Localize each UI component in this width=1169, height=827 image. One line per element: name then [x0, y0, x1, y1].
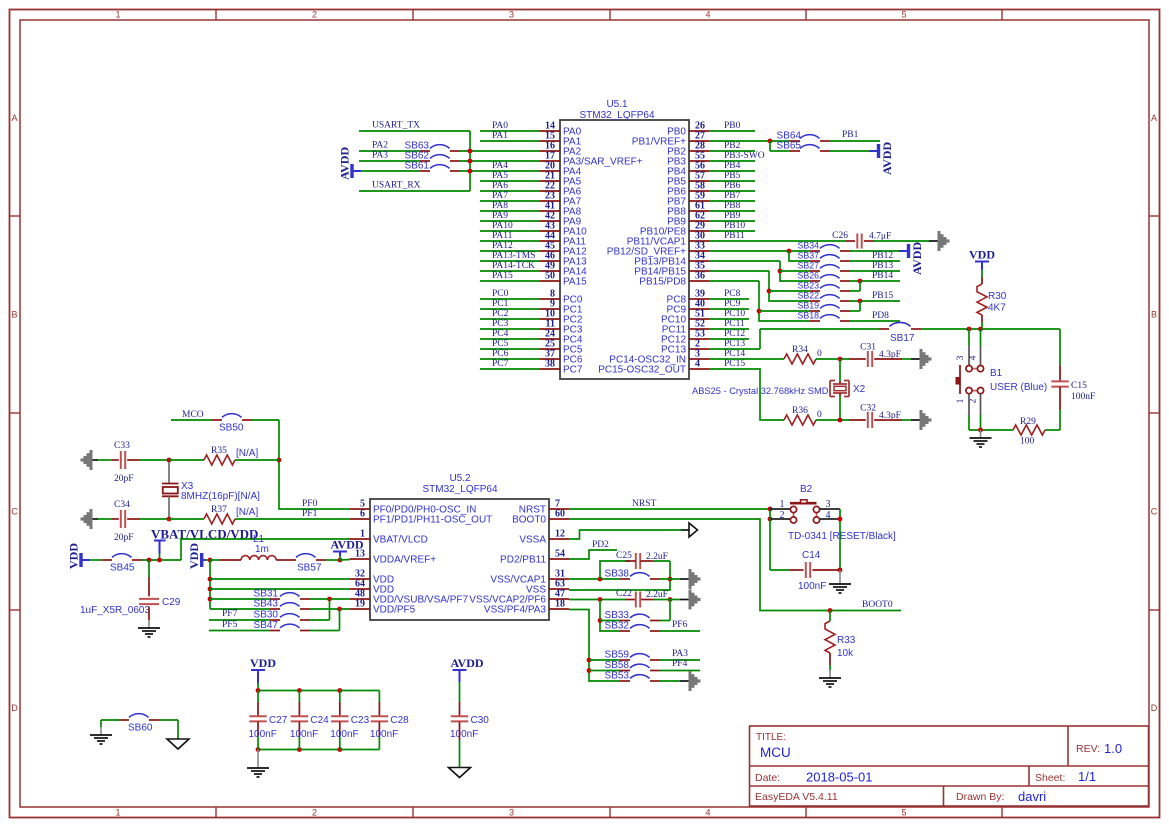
- svg-text:AVDD: AVDD: [330, 538, 363, 552]
- svg-text:SB38: SB38: [605, 569, 630, 580]
- svg-text:4: 4: [705, 808, 710, 818]
- svg-text:PF5: PF5: [222, 620, 238, 630]
- svg-text:38: 38: [545, 359, 555, 370]
- svg-text:4: 4: [705, 10, 710, 20]
- svg-text:PC8: PC8: [724, 289, 741, 299]
- svg-text:2: 2: [312, 808, 317, 818]
- svg-text:SB33: SB33: [605, 610, 630, 621]
- svg-text:Drawn By:: Drawn By:: [956, 791, 1004, 803]
- svg-text:C23: C23: [351, 715, 370, 726]
- svg-text:4.7μF: 4.7μF: [869, 232, 891, 242]
- svg-text:3: 3: [509, 10, 514, 20]
- svg-text:C14: C14: [802, 550, 821, 561]
- svg-text:C29: C29: [162, 597, 181, 608]
- svg-text:60: 60: [555, 509, 565, 520]
- svg-text:4: 4: [969, 355, 979, 360]
- svg-text:SB23: SB23: [797, 281, 819, 291]
- svg-text:PC5: PC5: [492, 339, 509, 349]
- svg-text:PF0: PF0: [302, 499, 318, 509]
- svg-text:PA15: PA15: [563, 277, 587, 288]
- svg-text:PA13-TMS: PA13-TMS: [492, 251, 535, 261]
- svg-text:PB11: PB11: [724, 231, 745, 241]
- svg-text:PF6: PF6: [672, 620, 688, 630]
- svg-text:PA4: PA4: [492, 161, 508, 171]
- svg-text:PC3: PC3: [492, 319, 509, 329]
- svg-text:PB10: PB10: [724, 221, 745, 231]
- svg-text:VDDA/VREF+: VDDA/VREF+: [373, 555, 436, 566]
- svg-text:18: 18: [555, 599, 565, 610]
- svg-text:R37: R37: [211, 505, 227, 515]
- svg-text:PD2: PD2: [592, 540, 609, 550]
- svg-text:SB27: SB27: [797, 261, 819, 271]
- svg-text:100nF: 100nF: [450, 729, 478, 740]
- svg-text:PF4: PF4: [672, 659, 688, 669]
- svg-text:0: 0: [817, 410, 822, 420]
- svg-text:AVDD: AVDD: [338, 147, 352, 180]
- svg-text:PC11: PC11: [724, 319, 745, 329]
- svg-text:VDD: VDD: [67, 543, 81, 569]
- svg-text:SB19: SB19: [797, 301, 819, 311]
- svg-text:SB18: SB18: [797, 311, 819, 321]
- svg-text:C: C: [11, 507, 18, 517]
- svg-text:C28: C28: [390, 715, 409, 726]
- svg-text:SB45: SB45: [110, 563, 135, 574]
- svg-text:SB26: SB26: [797, 271, 819, 281]
- svg-text:R36: R36: [792, 406, 808, 416]
- svg-text:2.2uF: 2.2uF: [646, 590, 668, 600]
- svg-text:SB59: SB59: [605, 650, 630, 661]
- svg-text:SB22: SB22: [797, 291, 819, 301]
- svg-text:R29: R29: [1020, 417, 1036, 427]
- svg-text:B2: B2: [800, 484, 813, 495]
- svg-text:10k: 10k: [837, 648, 854, 659]
- svg-text:PC12: PC12: [724, 329, 745, 339]
- svg-text:SB65: SB65: [777, 141, 802, 152]
- svg-text:2: 2: [312, 10, 317, 20]
- svg-text:D: D: [1151, 703, 1158, 713]
- svg-text:PB12: PB12: [872, 251, 893, 261]
- svg-text:PF7: PF7: [222, 609, 238, 619]
- svg-text:AVDD: AVDD: [880, 142, 894, 175]
- svg-text:PF1: PF1: [302, 509, 318, 519]
- svg-text:6: 6: [360, 509, 365, 520]
- svg-text:C34: C34: [114, 500, 130, 510]
- svg-text:1.0: 1.0: [1104, 741, 1122, 756]
- svg-text:PC15-OSC32_OUT: PC15-OSC32_OUT: [598, 365, 686, 376]
- svg-text:NRST: NRST: [632, 499, 656, 509]
- svg-text:U5.1: U5.1: [606, 99, 628, 110]
- svg-text:MCU: MCU: [760, 745, 791, 760]
- svg-text:1/1: 1/1: [1078, 769, 1096, 784]
- svg-text:C25: C25: [616, 551, 632, 561]
- svg-text:VDD: VDD: [969, 248, 995, 262]
- svg-text:TD-0341 [RESET/Black]: TD-0341 [RESET/Black]: [788, 531, 896, 542]
- svg-text:D: D: [11, 703, 18, 713]
- svg-text:SB53: SB53: [605, 671, 630, 682]
- svg-text:36: 36: [695, 271, 705, 282]
- svg-text:[N/A]: [N/A]: [236, 448, 258, 459]
- svg-text:PC6: PC6: [492, 349, 509, 359]
- svg-text:B1: B1: [990, 368, 1003, 379]
- svg-text:3: 3: [509, 808, 514, 818]
- svg-text:PA3: PA3: [672, 649, 688, 659]
- svg-text:PC15: PC15: [724, 359, 745, 369]
- svg-text:A: A: [11, 113, 17, 123]
- svg-text:PB6: PB6: [724, 181, 741, 191]
- svg-text:PB15/PD8: PB15/PD8: [639, 277, 686, 288]
- svg-text:PB7: PB7: [724, 191, 741, 201]
- svg-text:20pF: 20pF: [114, 474, 134, 484]
- svg-text:SB57: SB57: [297, 563, 322, 574]
- svg-text:PA8: PA8: [492, 201, 508, 211]
- svg-text:100nF: 100nF: [330, 729, 358, 740]
- svg-text:REV:: REV:: [1076, 743, 1100, 755]
- svg-text:PB14: PB14: [872, 271, 893, 281]
- svg-text:USART_TX: USART_TX: [372, 121, 420, 131]
- svg-text:100nF: 100nF: [249, 729, 277, 740]
- svg-text:VSS/PF4/PA3: VSS/PF4/PA3: [484, 605, 547, 616]
- svg-text:100nF: 100nF: [1071, 392, 1095, 402]
- svg-text:SB30: SB30: [254, 610, 279, 621]
- svg-text:PC7: PC7: [563, 365, 583, 376]
- svg-text:PB13: PB13: [872, 261, 893, 271]
- svg-text:2: 2: [780, 510, 785, 521]
- svg-text:100nF: 100nF: [370, 729, 398, 740]
- svg-text:PA12: PA12: [492, 241, 513, 251]
- svg-text:SB50: SB50: [219, 423, 244, 434]
- svg-text:PA11: PA11: [492, 231, 513, 241]
- svg-text:C27: C27: [269, 715, 288, 726]
- svg-text:SB17: SB17: [890, 333, 915, 344]
- svg-text:PA7: PA7: [492, 191, 508, 201]
- svg-text:1: 1: [115, 808, 120, 818]
- svg-text:SB61: SB61: [405, 161, 430, 172]
- svg-text:100: 100: [1020, 437, 1035, 447]
- svg-text:PC0: PC0: [492, 289, 509, 299]
- svg-text:VBAT/VLCD: VBAT/VLCD: [373, 535, 428, 546]
- svg-text:EasyEDA V5.4.11: EasyEDA V5.4.11: [755, 791, 838, 803]
- svg-text:C32: C32: [860, 404, 876, 414]
- svg-text:PC9: PC9: [724, 299, 741, 309]
- svg-text:AVDD: AVDD: [450, 656, 483, 670]
- svg-text:VDD: VDD: [187, 543, 201, 569]
- svg-text:STM32_LQFP64: STM32_LQFP64: [579, 110, 654, 121]
- svg-text:PF1/PD1/PH11-OSC_OUT: PF1/PD1/PH11-OSC_OUT: [373, 515, 492, 526]
- svg-text:19: 19: [355, 599, 365, 610]
- svg-text:PC2: PC2: [492, 309, 509, 319]
- svg-text:USART_RX: USART_RX: [372, 181, 421, 191]
- svg-text:USER (Blue): USER (Blue): [990, 382, 1047, 393]
- svg-text:C26: C26: [832, 231, 848, 241]
- svg-text:PC10: PC10: [724, 309, 745, 319]
- svg-text:davri: davri: [1018, 789, 1046, 804]
- svg-text:VDD: VDD: [250, 656, 276, 670]
- svg-text:PD8: PD8: [872, 311, 889, 321]
- svg-text:100nF: 100nF: [290, 729, 318, 740]
- svg-text:C22: C22: [616, 589, 632, 599]
- svg-text:SB37: SB37: [797, 251, 819, 261]
- svg-text:PA3: PA3: [372, 151, 388, 161]
- svg-text:SB47: SB47: [254, 620, 279, 631]
- svg-text:PB9: PB9: [724, 211, 741, 221]
- svg-text:PC14: PC14: [724, 349, 745, 359]
- svg-text:R33: R33: [837, 635, 856, 646]
- svg-text:PB3-SWO: PB3-SWO: [724, 151, 765, 161]
- svg-text:C: C: [1151, 507, 1158, 517]
- svg-text:MCO: MCO: [182, 410, 204, 420]
- svg-text:VDD/PF5: VDD/PF5: [373, 605, 416, 616]
- svg-text:0: 0: [817, 349, 822, 359]
- svg-text:PC7: PC7: [492, 359, 509, 369]
- svg-text:PB0: PB0: [724, 121, 741, 131]
- svg-text:4: 4: [695, 359, 700, 370]
- svg-text:X2: X2: [853, 384, 866, 395]
- svg-text:PB5: PB5: [724, 171, 741, 181]
- svg-text:1: 1: [780, 499, 785, 510]
- svg-text:R34: R34: [792, 345, 808, 355]
- svg-text:PA10: PA10: [492, 221, 513, 231]
- svg-text:BOOT0: BOOT0: [862, 600, 893, 610]
- svg-text:U5.2: U5.2: [449, 473, 471, 484]
- svg-text:PA6: PA6: [492, 181, 508, 191]
- svg-text:B: B: [11, 310, 17, 320]
- svg-text:PA15: PA15: [492, 271, 513, 281]
- svg-text:PB2: PB2: [724, 141, 741, 151]
- svg-text:TITLE:: TITLE:: [756, 732, 786, 743]
- svg-text:C15: C15: [1071, 381, 1087, 391]
- svg-text:20pF: 20pF: [114, 533, 134, 543]
- svg-text:12: 12: [555, 529, 565, 540]
- svg-text:STM32_LQFP64: STM32_LQFP64: [422, 484, 497, 495]
- svg-text:PD2/PB11: PD2/PB11: [500, 555, 546, 566]
- svg-text:2: 2: [969, 398, 979, 403]
- svg-text:100nF: 100nF: [798, 581, 826, 592]
- svg-text:54: 54: [555, 549, 565, 560]
- svg-text:SB32: SB32: [605, 621, 630, 632]
- svg-text:BOOT0: BOOT0: [512, 515, 546, 526]
- svg-text:PB1: PB1: [842, 130, 859, 140]
- svg-text:PA1: PA1: [492, 131, 508, 141]
- svg-text:Sheet:: Sheet:: [1035, 772, 1065, 784]
- svg-text:PA14-TCK: PA14-TCK: [492, 261, 535, 271]
- svg-text:AVDD: AVDD: [910, 242, 924, 275]
- svg-text:SB58: SB58: [605, 660, 630, 671]
- svg-text:C30: C30: [471, 715, 490, 726]
- svg-text:1: 1: [115, 10, 120, 20]
- svg-text:R35: R35: [211, 446, 227, 456]
- svg-text:PB4: PB4: [724, 161, 741, 171]
- svg-text:50: 50: [545, 271, 555, 282]
- svg-text:5: 5: [901, 10, 906, 20]
- svg-text:PA0: PA0: [492, 121, 508, 131]
- svg-text:PB15: PB15: [872, 291, 893, 301]
- svg-text:R30: R30: [988, 291, 1007, 302]
- svg-text:SB34: SB34: [797, 241, 819, 251]
- svg-text:C31: C31: [860, 343, 876, 353]
- svg-text:C24: C24: [310, 715, 329, 726]
- svg-text:PA9: PA9: [492, 211, 508, 221]
- svg-text:SB60: SB60: [128, 723, 153, 734]
- svg-text:1: 1: [956, 398, 966, 403]
- svg-text:4K7: 4K7: [988, 303, 1006, 314]
- svg-text:PA2: PA2: [372, 141, 388, 151]
- svg-text:PC4: PC4: [492, 329, 509, 339]
- svg-text:SB43: SB43: [254, 599, 279, 610]
- svg-text:8MHZ(16pF)[N/A]: 8MHZ(16pF)[N/A]: [181, 491, 260, 502]
- svg-text:PA5: PA5: [492, 171, 508, 181]
- svg-text:PC13: PC13: [724, 339, 745, 349]
- svg-text:1m: 1m: [255, 544, 269, 555]
- svg-text:PB8: PB8: [724, 201, 741, 211]
- svg-text:5: 5: [901, 808, 906, 818]
- svg-text:A: A: [1151, 113, 1157, 123]
- svg-text:1uF_X5R_0603: 1uF_X5R_0603: [80, 605, 150, 616]
- svg-text:PC1: PC1: [492, 299, 509, 309]
- svg-text:C33: C33: [114, 441, 130, 451]
- svg-text:[N/A]: [N/A]: [236, 507, 258, 518]
- svg-text:Date:: Date:: [755, 772, 780, 784]
- svg-text:B: B: [1151, 310, 1157, 320]
- svg-text:3: 3: [956, 355, 966, 360]
- svg-text:VSSA: VSSA: [519, 535, 546, 546]
- svg-text:2018-05-01: 2018-05-01: [806, 770, 873, 785]
